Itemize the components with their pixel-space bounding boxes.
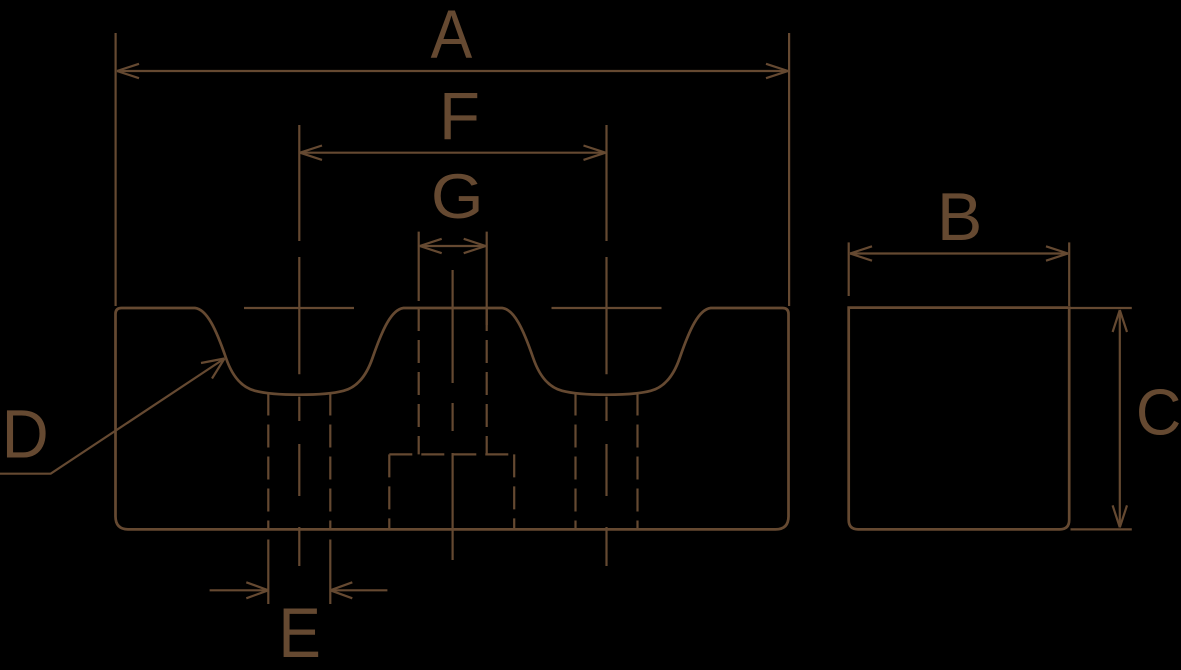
svg-text:G: G	[431, 161, 484, 231]
svg-text:D: D	[2, 396, 49, 473]
svg-text:A: A	[431, 0, 473, 73]
svg-text:B: B	[937, 180, 983, 255]
svg-text:C: C	[1136, 376, 1181, 449]
svg-text:E: E	[278, 594, 321, 670]
svg-text:F: F	[439, 79, 480, 154]
